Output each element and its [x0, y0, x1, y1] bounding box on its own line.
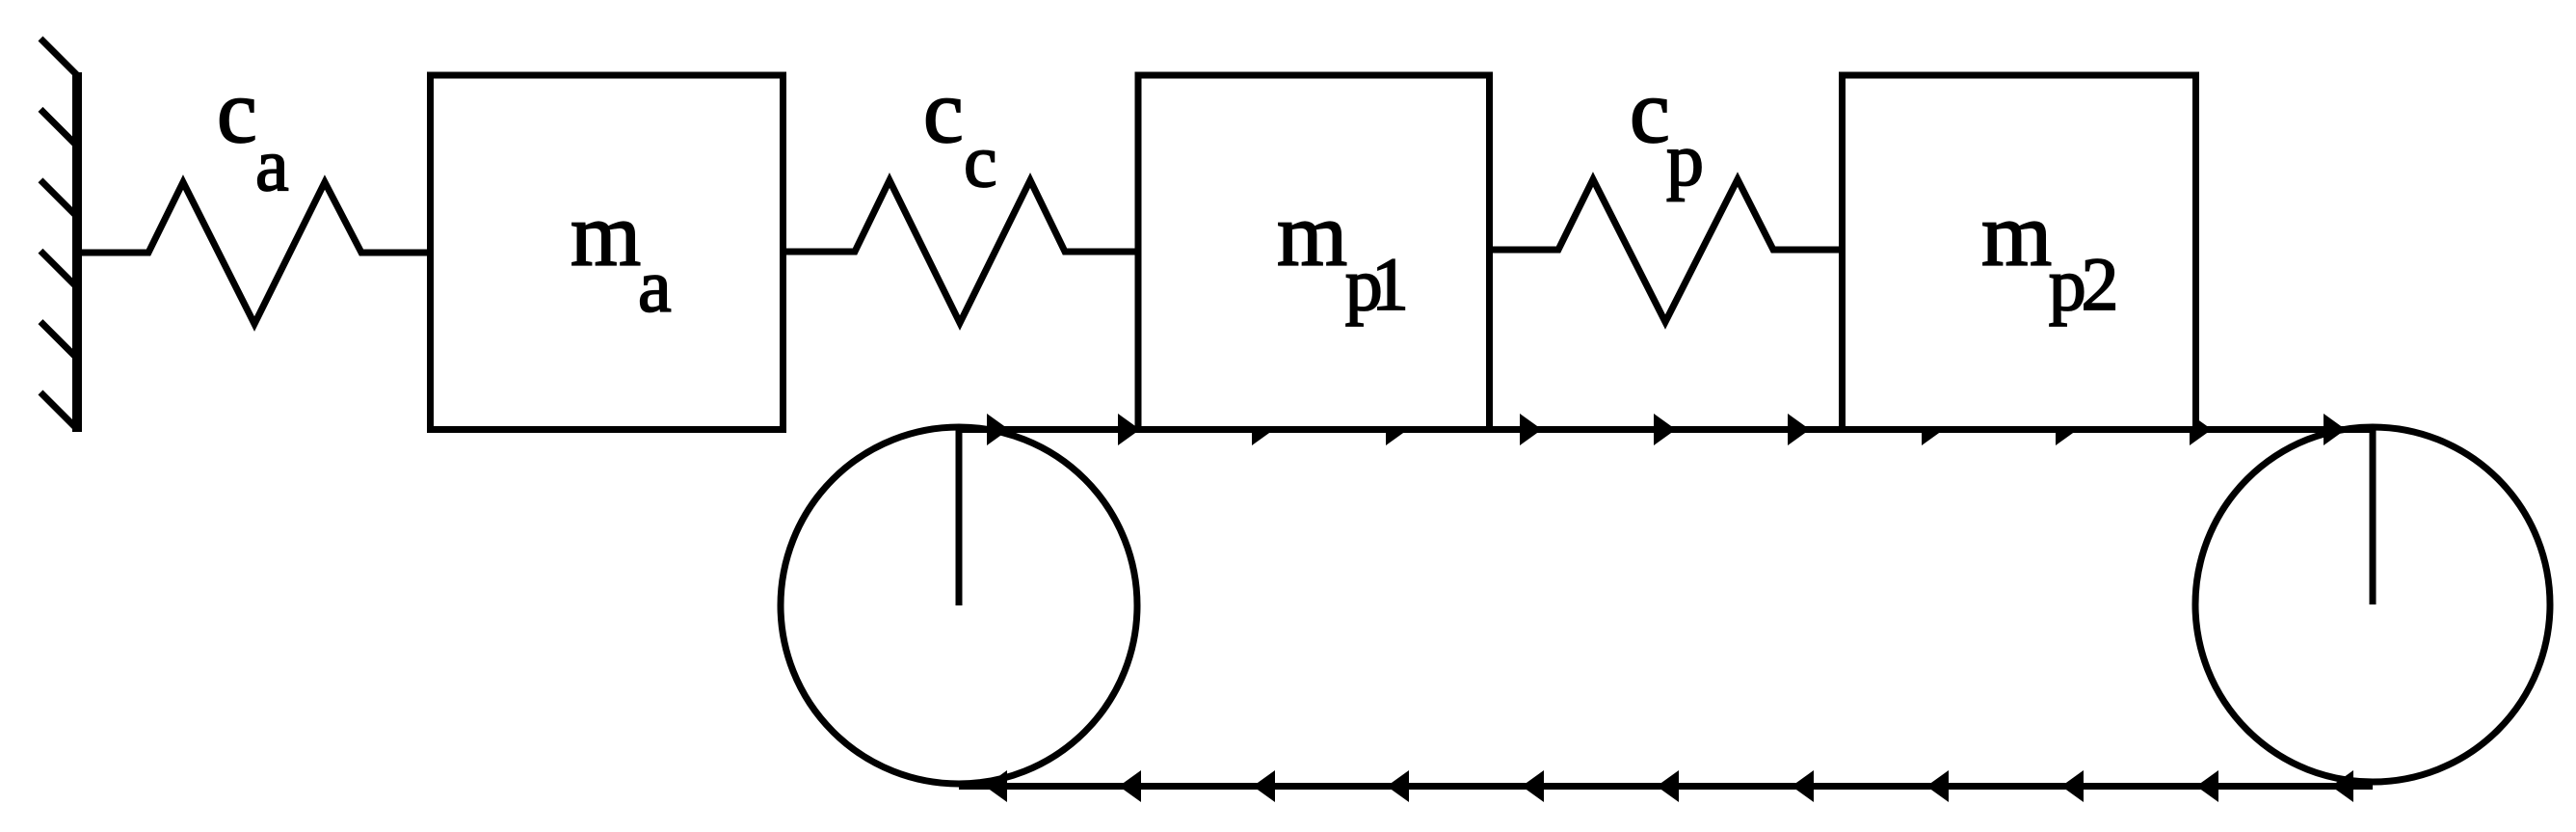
- belt bottom arrow 10 (leftward): [2196, 770, 2218, 802]
- wall hatch 4: [40, 251, 77, 287]
- mass m_a box: [431, 75, 783, 430]
- svg-text:c: c: [964, 119, 997, 202]
- svg-text:m: m: [571, 185, 641, 285]
- wall hatch 5: [40, 322, 77, 359]
- belt bottom arrow 6 (leftward): [1657, 770, 1679, 802]
- belt bottom arrow 4 (leftward): [1387, 770, 1409, 802]
- belt top arrow 6 (rightward): [1654, 414, 1676, 445]
- belt bottom arrow 5 (leftward): [1522, 770, 1544, 802]
- belt bottom run: [959, 783, 2373, 790]
- wall hatch 3: [40, 180, 77, 217]
- wall line: [72, 72, 82, 432]
- belt top arrow 9 (rightward): [2056, 414, 2078, 445]
- belt top arrow 7 (rightward): [1788, 414, 1810, 445]
- svg-text:p: p: [1666, 118, 1704, 201]
- belt top arrow 3 (rightward): [1252, 414, 1274, 445]
- svg-text:a: a: [638, 244, 672, 328]
- belt bottom arrow 8 (leftward): [1926, 770, 1949, 802]
- belt top arrow 11 (rightward): [2324, 414, 2346, 445]
- belt top arrow 10 (rightward): [2190, 414, 2212, 445]
- belt top arrow 8 (rightward): [1922, 414, 1944, 445]
- svg-text:m: m: [1277, 185, 1347, 285]
- pulley P1 radius line: [956, 429, 963, 605]
- wall hatch 1: [40, 39, 77, 75]
- spring c_c: [783, 180, 1139, 323]
- mass m_p2 box: [1843, 75, 2196, 430]
- belt top run: [959, 426, 2373, 433]
- belt top arrow 5 (rightward): [1520, 414, 1542, 445]
- belt bottom arrow 2 (leftward): [1119, 770, 1141, 802]
- belt bottom arrow 3 (leftward): [1253, 770, 1275, 802]
- svg-text:c: c: [1630, 62, 1670, 162]
- svg-text:1: 1: [1371, 242, 1409, 326]
- belt top arrow 2 (rightward): [1118, 414, 1140, 445]
- svg-text:a: a: [255, 122, 289, 206]
- spring c_p: [1489, 179, 1843, 322]
- belt top arrow 4 (rightward): [1386, 414, 1408, 445]
- belt bottom arrow 1 (leftward): [985, 770, 1007, 802]
- svg-text:c: c: [923, 62, 964, 162]
- pulley P2 (right, circle): [2195, 427, 2550, 782]
- belt bottom arrow 7 (leftward): [1792, 770, 1814, 802]
- belt bottom arrow 9 (leftward): [2061, 770, 2084, 802]
- wall hatch 2: [40, 109, 77, 146]
- pulley P2 radius line: [2370, 429, 2377, 604]
- svg-text:c: c: [217, 62, 257, 162]
- belt bottom arrow 11 (leftward): [2331, 770, 2353, 802]
- wall hatch 6: [40, 392, 77, 429]
- svg-text:m: m: [1981, 185, 2052, 285]
- belt top arrow 1 (rightward): [987, 414, 1009, 445]
- svg-text:2: 2: [2082, 242, 2119, 326]
- spring c_a: [81, 182, 432, 324]
- pulley P1 (left, circle): [781, 427, 1137, 784]
- mass m_p1 box: [1138, 75, 1490, 430]
